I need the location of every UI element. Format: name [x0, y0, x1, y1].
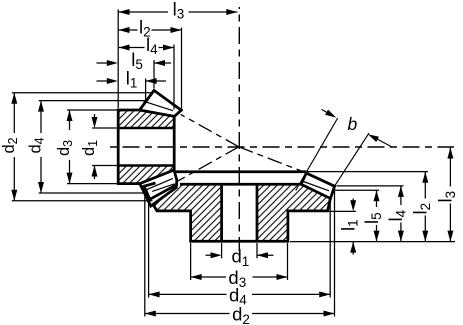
- extension line d2 bottom: [12, 200, 153, 202]
- extension line d2 left: [144, 188, 146, 317]
- extension line l4 right: [173, 45, 175, 110]
- extension line d2 top: [12, 92, 153, 94]
- dim l4: [119, 47, 145, 49]
- extension line l2 top right (gear face): [307, 171, 428, 173]
- pinion G1 bore bottom: [118, 164, 174, 166]
- dim d4 left: [40, 101, 42, 133]
- pinion G1 left face: [117, 109, 120, 185]
- pinion G1 hub top edge: [117, 109, 140, 112]
- dim l2: [119, 29, 138, 31]
- gear G2 right tooth: [301, 173, 334, 198]
- gear G2 bore wall left: [220, 184, 223, 241]
- gear G2 left tooth pitch line: [152, 184, 174, 192]
- extension line d3 hub left: [190, 243, 192, 280]
- extension line l1 top right: [327, 210, 356, 212]
- extension line d1 bottom: [92, 165, 118, 167]
- extension line d3 top: [67, 109, 118, 111]
- gear G2 front face line A: [174, 170, 306, 173]
- extension line d1 bore right: [256, 243, 258, 258]
- dim b arrow 1: [322, 109, 327, 112]
- pinion axis centerline: [105, 146, 454, 148]
- pinion G1 section hatching: [118, 110, 174, 128]
- extension line l4 top right: [337, 185, 404, 187]
- pinion G1 bottom tooth pitch line: [145, 178, 173, 190]
- pinion G1 body: [118, 90, 181, 206]
- gear G2 body (bottom wheel): [144, 172, 334, 242]
- gear G2 left tooth tip edge: [144, 183, 177, 199]
- extension line d3 hub right: [287, 243, 289, 280]
- extension line l1 right: [145, 79, 147, 102]
- dim b arrow 2: [377, 139, 391, 147]
- dim d3 left: [69, 110, 71, 130]
- dim d3 bottom: [191, 276, 226, 278]
- pinion G1 top tooth: [140, 90, 182, 116]
- dim l3 right: [449, 148, 451, 187]
- extension line hub bottom right long: [290, 241, 455, 243]
- pinion G1 bore top: [118, 127, 174, 129]
- extension line d1 top: [92, 127, 118, 129]
- dim l1 (outside arrows): [97, 80, 108, 82]
- extension line d2 right: [334, 188, 336, 317]
- pinion G1 top tooth pitch line: [144, 101, 174, 111]
- extension line l5 top right: [333, 189, 379, 191]
- gear axis centerline: [238, 7, 240, 251]
- gear G2 left tooth (white underlay): [144, 173, 177, 198]
- dim l4 right: [400, 186, 402, 205]
- dim l5 (outside arrows): [97, 62, 108, 64]
- dim d2 left: [13, 93, 15, 133]
- dim l3: [119, 11, 169, 13]
- dim d1 bottom (outside arrows): [206, 254, 212, 256]
- extension line d4 right: [329, 201, 331, 298]
- pinion G1 hub bottom edge: [117, 182, 140, 185]
- dim d1 left (outside arrows): [94, 114, 96, 118]
- gear G2 section hatching: [146, 184, 330, 241]
- pinion G1 bottom tooth: [140, 170, 177, 206]
- extension line left face up: [117, 10, 119, 109]
- dim d4 bottom: [149, 293, 227, 295]
- svg-text:b: b: [348, 114, 358, 134]
- extension line l2 right: [181, 28, 183, 110]
- extension line d4 top: [39, 100, 146, 102]
- extension line d3 bottom: [67, 183, 118, 185]
- pitch cone ray lower-left: [177, 147, 239, 182]
- extension line l5 right: [153, 60, 155, 89]
- dim b leader line 1: [296, 118, 338, 191]
- dim d2 bottom: [145, 313, 230, 315]
- extension line d4 left: [148, 201, 150, 298]
- gear G2 right tooth pitch line: [302, 181, 329, 191]
- extension line d1 bore left: [221, 243, 223, 258]
- gear G2 bore wall right: [256, 184, 259, 241]
- extension line d4 bottom: [39, 192, 146, 194]
- pitch cone ray lower-right: [239, 147, 306, 173]
- dim l5 right: [376, 190, 378, 207]
- pinion G1 right face: [173, 116, 176, 171]
- pitch cone ray upper-left: [181, 114, 239, 146]
- dim l1 right (outside arrows): [352, 199, 354, 201]
- dim l2 right: [424, 172, 426, 199]
- gear G2 outline: [144, 173, 334, 241]
- dim b leader line 2: [335, 133, 370, 186]
- gear G2 section face line B: [180, 183, 301, 186]
